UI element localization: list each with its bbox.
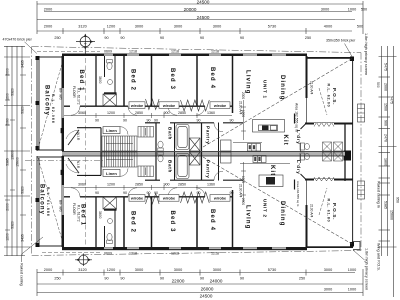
svg-text:90: 90 [154,119,158,123]
bath unit2 [176,154,189,179]
svg-text:Linen: Linen [106,171,117,176]
svg-text:90: 90 [147,119,151,123]
unit1 room labels [78,67,288,146]
ldry bifold unit1 [314,123,334,125]
svg-text:24000: 24000 [210,279,223,284]
svg-text:1218: 1218 [129,50,137,54]
window labels top wall [104,50,219,54]
entry door unit1 [66,130,79,145]
top dimension line 1 [37,1,363,34]
windows in top wall [104,54,286,56]
svg-text:w/robe: w/robe [213,197,226,201]
balcony piers u2 [36,198,40,247]
svg-text:500: 500 [376,82,380,88]
balcony piers [36,56,40,150]
svg-text:90: 90 [123,119,127,123]
unit1 living diagonal [203,59,352,148]
ens shelf unit1 [104,92,117,94]
w/robe labels unit1 [129,102,230,109]
kit/ldry wall unit1 [294,114,296,124]
svg-text:3000: 3000 [213,268,221,272]
svg-text:living and P.O.S.: living and P.O.S. [377,243,381,271]
windows bottom wall [104,247,286,249]
svg-text:3000: 3000 [321,8,329,12]
site boundary [32,47,361,256]
svg-text:FLOOR: FLOOR [72,86,76,98]
eaves dashed line top [37,51,100,53]
svg-text:FLOOR: FLOOR [72,203,76,215]
svg-text:Bed 2: Bed 2 [130,69,136,91]
svg-text:W.I.R: W.I.R [76,160,80,169]
svg-text:R.L. 62.172: R.L. 62.172 [77,88,81,105]
svg-text:Living: Living [245,205,251,230]
court wall right [344,123,346,181]
section line left [25,160,103,162]
svg-text:1218: 1218 [171,50,179,54]
living dim line unit2 [241,162,246,202]
svg-text:900: 900 [164,183,170,187]
svg-text:R.L. 62.00: R.L. 62.00 [327,84,331,108]
WIR unit1 [77,128,101,151]
svg-text:3600: 3600 [98,76,102,84]
ldry bifold unit2 [314,179,334,181]
svg-text:3120: 3120 [78,268,86,272]
svg-text:250: 250 [54,277,60,281]
screen pier bottom [350,242,354,247]
svg-text:w/robe: w/robe [130,197,143,201]
svg-text:2060: 2060 [6,118,10,126]
ens shelf unit2 [104,209,117,211]
svg-text:5385: 5385 [383,201,387,209]
corridor wall unit1 [64,105,233,107]
svg-text:L'dry: L'dry [296,160,301,175]
kitchen bench unit1 [233,142,262,151]
svg-text:2850: 2850 [135,183,143,187]
unit1 party-wall side: P.O.S. left wall [306,56,308,98]
svg-text:2130 A/4: 2130 A/4 [239,101,243,115]
svg-text:5320: 5320 [11,88,15,96]
corridor lower wall unit1 [145,122,243,124]
right dimension lines [379,46,397,297]
svg-text:Bed 3: Bed 3 [169,211,175,233]
svg-text:1218: 1218 [171,251,179,255]
stairs unit2 flight B [138,166,154,177]
svg-text:90: 90 [230,119,234,123]
svg-text:1000: 1000 [348,288,356,292]
svg-text:26000: 26000 [201,286,214,291]
bottom-right corner step [353,242,360,250]
balcony outer wall u2 [37,156,62,246]
unit2 P.O.S. bottom wall [307,246,353,248]
privacy screen right [352,57,354,246]
w/robe labels unit2 [129,195,230,202]
svg-text:5730: 5730 [268,268,276,272]
bottom dimension line 1 [37,269,363,296]
fridge unit2 [221,152,232,163]
svg-text:500: 500 [357,25,363,29]
svg-text:350x350 brick pier: 350x350 brick pier [326,39,356,43]
svg-text:2000: 2000 [6,68,10,76]
svg-text:Area 162.555 sq m: Area 162.555 sq m [295,103,299,132]
svg-text:250: 250 [299,277,305,281]
svg-text:BIF w/d: BIF w/d [59,200,63,212]
unit2 P.O.S. top wall [305,179,353,181]
svg-text:5320: 5320 [21,106,25,114]
svg-text:90: 90 [104,277,108,281]
window labels bottom wall [104,251,219,255]
unit2 P.O.S. left wall [306,205,308,247]
svg-text:1218: 1218 [129,251,137,255]
unit2 room labels [80,165,285,233]
bottom dimension labels [44,268,356,298]
balcony raked ceiling diagonal [38,60,63,149]
svg-text:2000: 2000 [241,198,245,205]
svg-text:2130 A/4: 2130 A/4 [310,204,314,218]
stairs unit1 flight B [138,127,154,138]
north symbol bottom [75,254,92,267]
laundry fixtures unit1 [300,142,343,151]
svg-text:90: 90 [95,191,99,195]
svg-text:2000: 2000 [6,203,10,211]
svg-text:Raked ceiling: Raked ceiling [19,263,23,286]
svg-text:90: 90 [160,277,164,281]
laundry fixtures unit2 [300,152,343,161]
svg-text:1200: 1200 [107,183,115,187]
pantry unit2 [218,152,220,181]
svg-text:90: 90 [200,277,204,281]
svg-text:Pantry: Pantry [206,160,211,179]
shower unit1 [103,94,117,106]
svg-text:500: 500 [361,8,367,12]
svg-text:2850: 2850 [178,183,186,187]
bedroom door arcs unit2 [71,188,205,197]
bath walls unit1 [155,123,157,152]
svg-text:2130 A/4: 2130 A/4 [239,184,243,198]
unit2 living diagonal [203,157,352,244]
shower bath unit1 [190,138,201,151]
svg-text:2850: 2850 [178,111,186,115]
shower bath unit2 [190,152,201,165]
svg-text:90: 90 [240,277,244,281]
svg-text:P.O.S.: P.O.S. [332,88,337,105]
svg-text:3060: 3060 [78,183,86,187]
interior wall bed4/living [232,56,234,113]
svg-text:2850: 2850 [135,111,143,115]
svg-text:Dining: Dining [279,201,285,227]
wc unit2 bath [158,152,163,162]
svg-text:Bed 2: Bed 2 [130,211,136,233]
svg-text:1360: 1360 [207,111,215,115]
svg-text:4000: 4000 [324,25,332,29]
svg-text:15600: 15600 [389,210,393,220]
P.O.S. bottom wall [305,123,353,125]
bath walls unit2 [155,152,157,181]
wc pan [107,60,113,70]
unit2 bottom wall [62,247,307,250]
svg-text:470x470 brick pier: 470x470 brick pier [3,38,33,42]
svg-text:2000: 2000 [383,83,387,91]
corridor lower wall unit2 [145,179,243,181]
svg-text:w/robe: w/robe [213,104,226,108]
svg-text:1218: 1218 [211,251,219,255]
svg-text:900: 900 [383,120,387,126]
svg-text:24500: 24500 [197,15,210,20]
left dimension lines [4,46,30,256]
bath unit1 [176,125,189,150]
svg-text:250: 250 [305,36,311,40]
unit2 interior walls [95,198,97,248]
linen unit2 [103,169,120,176]
svg-text:UNIT 2: UNIT 2 [263,199,268,218]
svg-text:90: 90 [120,277,124,281]
svg-text:1800: 1800 [383,158,387,166]
svg-text:BIF w/d: BIF w/d [59,88,63,100]
kitchen island unit1 [253,120,285,133]
svg-text:0609: 0609 [104,251,112,255]
svg-text:R.L. 62.066: R.L. 62.066 [51,94,55,124]
svg-text:w/robe: w/robe [162,197,175,201]
interior wall bed3/bed4 [196,56,198,107]
svg-text:90: 90 [95,119,99,123]
section dash line unit1 [85,58,87,150]
interior wall bed1/ens [95,56,97,106]
svg-text:1000: 1000 [348,268,356,272]
section dash line unit2 [85,157,87,246]
linen unit1 [103,127,120,134]
svg-text:w/robe: w/robe [130,104,143,108]
screen gate [358,104,365,122]
svg-text:3435: 3435 [21,234,25,242]
top dimension labels [44,0,367,40]
screen pier top [350,57,354,62]
svg-text:R.L. 61.80: R.L. 61.80 [327,199,331,223]
unit2 left wall [62,156,65,247]
svg-text:1360: 1360 [207,183,215,187]
svg-text:3435: 3435 [21,60,25,68]
svg-text:1200: 1200 [6,93,10,101]
unit1 top wall [62,54,307,57]
svg-text:1.8m high privacy screen: 1.8m high privacy screen [364,33,368,75]
svg-text:5475: 5475 [383,63,387,71]
svg-text:R.L. 61.886: R.L. 61.886 [46,187,50,217]
svg-text:2000: 2000 [241,92,245,99]
wc unit1 bath [158,141,163,151]
svg-text:Bath: Bath [168,160,173,173]
svg-text:2000: 2000 [44,25,52,29]
robe zigzags unit1 [146,99,210,111]
svg-text:3000: 3000 [324,288,332,292]
svg-text:2130 A/4: 2130 A/4 [310,81,314,95]
svg-text:15600: 15600 [16,157,20,167]
svg-text:5730: 5730 [268,25,276,29]
svg-text:13600: 13600 [11,150,15,160]
svg-text:Area 162.555 sq m: Area 162.555 sq m [296,181,300,207]
svg-text:w/robe: w/robe [162,104,175,108]
unit1 interior dim row [64,113,232,118]
svg-text:90: 90 [200,36,204,40]
svg-text:2470: 2470 [383,134,387,142]
stairs unit2 flight A [102,152,137,167]
P.O.S. top wall [307,57,353,59]
svg-text:Linen: Linen [106,128,117,133]
kit/ldry wall unit2 [294,180,296,190]
right dimension labels [383,63,399,220]
svg-text:1500: 1500 [383,103,387,111]
svg-text:90: 90 [120,36,124,40]
unit2 interior dim row [64,185,232,190]
basin [108,80,113,85]
top dimension line 3 [37,19,355,21]
unit1 left wall (bifold to balcony) [62,56,65,151]
top dimension line 2 [44,11,352,13]
svg-text:1200: 1200 [107,268,115,272]
top dimension line 4 [37,28,352,34]
svg-text:3000: 3000 [174,268,182,272]
svg-text:90: 90 [160,36,164,40]
bedroom door arcs unit1 [71,106,205,115]
robe zigzags unit2 [146,192,210,204]
svg-text:1200: 1200 [107,111,115,115]
svg-text:Bed 4: Bed 4 [209,67,215,89]
stairs unit1 flight A [102,136,137,151]
svg-text:3000: 3000 [324,268,332,272]
svg-text:3060: 3060 [78,111,86,115]
svg-text:3000: 3000 [174,25,182,29]
svg-text:5320: 5320 [11,221,15,229]
balcony diagonal u2 [38,158,63,243]
svg-text:3600: 3600 [98,211,102,219]
ensuite unit2 [104,226,106,247]
svg-text:W.I.R: W.I.R [76,132,80,141]
svg-text:1218: 1218 [211,50,219,54]
svg-text:Kit: Kit [282,135,288,146]
svg-text:3000: 3000 [135,25,143,29]
svg-text:Pantry: Pantry [206,126,211,145]
svg-text:Living: Living [245,70,251,95]
pos branch line unit1 [319,88,327,115]
svg-text:20000: 20000 [184,7,197,12]
pos branch line unit2 [319,188,327,215]
svg-text:3000: 3000 [135,268,143,272]
svg-text:1.8m high privacy screen: 1.8m high privacy screen [365,248,369,290]
svg-text:Bed 4: Bed 4 [209,209,215,231]
svg-text:5320: 5320 [21,186,25,194]
svg-text:90: 90 [240,36,244,40]
svg-text:2000: 2000 [44,8,52,12]
bottom dimension line 2 [37,283,363,285]
north symbol top [76,34,95,55]
bottom dimension line 3 [37,292,363,294]
svg-text:Raked ceiling in: Raked ceiling in [377,181,381,208]
svg-text:2000: 2000 [44,268,52,272]
svg-text:1200: 1200 [107,25,115,29]
svg-text:24500: 24500 [200,293,213,298]
svg-text:3120: 3120 [78,25,86,29]
svg-text:3000: 3000 [213,25,221,29]
svg-text:90: 90 [104,36,108,40]
svg-text:950: 950 [396,197,400,203]
eaves dashed line bottom [42,251,100,253]
svg-text:UNIT 1: UNIT 1 [263,80,268,99]
svg-text:Bath: Bath [168,127,173,140]
kitchen bench unit2 [240,156,290,164]
interior wall ens/bed2 [123,56,125,107]
screen gate u2 [358,181,365,199]
svg-text:9475: 9475 [389,96,393,104]
svg-text:5385: 5385 [6,158,10,166]
svg-text:22000: 22000 [172,279,185,284]
svg-text:P.O.S.: P.O.S. [332,203,337,220]
svg-text:90: 90 [123,191,127,195]
living dim line unit1 [241,100,246,140]
svg-text:1000: 1000 [348,8,356,12]
pantry unit1 [218,123,220,152]
left dimension labels [6,60,25,242]
balcony outer wall [37,57,62,151]
svg-text:1200: 1200 [6,233,10,241]
entry door unit2 [66,158,79,173]
svg-text:R.L. 61.972: R.L. 61.972 [77,205,81,222]
ensuite wc nook [104,56,106,77]
corridor wall unit2 [64,196,233,198]
svg-text:900: 900 [164,111,170,115]
svg-text:0609: 0609 [104,50,112,54]
svg-text:250: 250 [54,36,60,40]
svg-text:Bed 3: Bed 3 [169,68,175,90]
svg-text:L'dry: L'dry [296,130,301,145]
svg-text:90: 90 [197,119,201,123]
svg-text:Balcony: Balcony [44,85,50,116]
shower unit2 [103,197,117,209]
svg-text:Dining: Dining [279,75,285,101]
svg-text:24500: 24500 [197,0,210,4]
svg-text:Balcony: Balcony [39,184,45,215]
interior wall bed2/bed3 [151,56,153,107]
svg-text:Kit: Kit [269,165,275,176]
WIR unit2 [77,152,101,175]
fridge unit1 [221,140,232,151]
kitchen island unit2 [259,175,283,187]
